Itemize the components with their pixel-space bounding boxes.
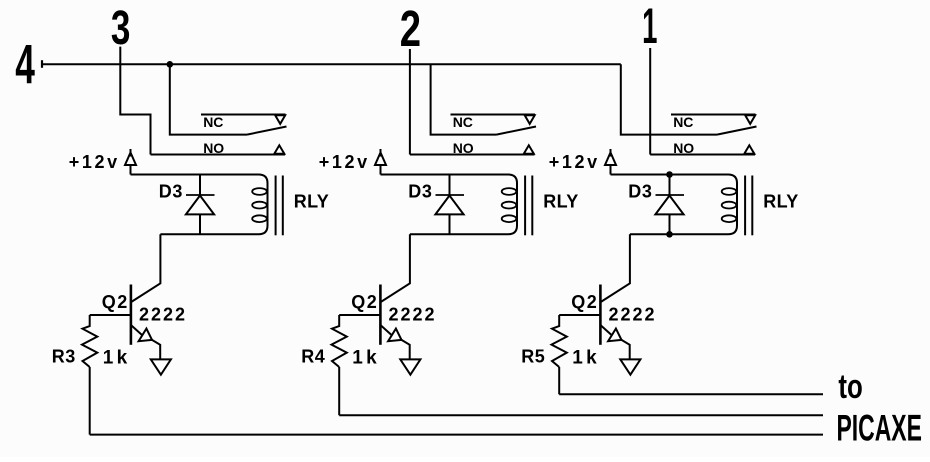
relay K3 NC terminal triangle xyxy=(745,115,755,124)
emitter arrow Q2 block2 xyxy=(388,329,401,342)
+12v power arrow block3 xyxy=(605,153,616,166)
transistor Q2 bar block1 xyxy=(130,285,133,345)
relay core line 1 block3 xyxy=(744,176,746,236)
relay K1 NC terminal triangle xyxy=(275,115,285,124)
svg-text:R4: R4 xyxy=(301,347,325,367)
svg-text:to: to xyxy=(838,369,862,406)
relay K1 NC contact line xyxy=(201,114,286,116)
coil loop 2 block3 xyxy=(722,202,737,209)
relay core line 2 block1 xyxy=(282,176,284,236)
svg-text:NC: NC xyxy=(203,114,223,130)
diode D3 wire block2 xyxy=(449,175,451,235)
svg-text:+12v: +12v xyxy=(319,152,370,172)
coil loop 1 block3 xyxy=(722,188,737,195)
+12v arrow stem block3 xyxy=(610,165,612,175)
relay core line 1 block2 xyxy=(524,176,526,236)
svg-text:1k: 1k xyxy=(103,347,131,368)
wire R3 to PICAXE block1 xyxy=(90,434,823,436)
collector wire Q2 block2 xyxy=(381,234,410,302)
diode D3 triangle block3 xyxy=(655,196,683,215)
wire net 2 to NO block2 xyxy=(409,49,411,155)
bus wire net 4 xyxy=(42,63,621,65)
ground symbol block1 xyxy=(151,359,171,374)
svg-text:2222: 2222 xyxy=(609,305,657,325)
coil loop 3 block1 xyxy=(252,215,267,222)
junction dot diode bottom block3 xyxy=(666,231,673,238)
resistor R3 bottom lead block1 xyxy=(89,367,91,435)
bus left end tick xyxy=(41,60,43,68)
svg-text:PICAXE: PICAXE xyxy=(837,407,922,449)
resistor R5 bottom lead block3 xyxy=(558,367,560,394)
resistor R4 zigzag block2 xyxy=(332,315,347,367)
svg-text:D3: D3 xyxy=(408,182,432,202)
relay K3 NC contact line xyxy=(671,114,756,116)
svg-text:+12v: +12v xyxy=(549,152,600,172)
svg-text:2222: 2222 xyxy=(389,305,437,325)
svg-text:3: 3 xyxy=(111,1,130,55)
svg-text:4: 4 xyxy=(15,33,35,95)
ground symbol block2 xyxy=(400,359,420,374)
relay coil RLY outline block3 xyxy=(611,175,738,184)
svg-text:RLY: RLY xyxy=(763,191,798,211)
svg-text:NO: NO xyxy=(673,140,694,156)
emitter wire Q2 block1 xyxy=(131,325,142,335)
wire bus to common block2 xyxy=(431,64,497,134)
svg-text:RLY: RLY xyxy=(294,191,329,211)
relay core line 2 block2 xyxy=(531,176,533,236)
wire R4 to PICAXE block2 xyxy=(339,414,823,416)
svg-text:NC: NC xyxy=(673,114,693,130)
collector wire Q2 block1 xyxy=(131,234,160,302)
diode D3 wire block1 xyxy=(199,175,201,235)
emitter-to-ground wire block2 xyxy=(402,340,410,359)
svg-text:Q2: Q2 xyxy=(351,292,378,312)
relay K2 NC contact line xyxy=(451,114,536,116)
svg-text:Q2: Q2 xyxy=(102,292,129,312)
svg-text:R3: R3 xyxy=(52,347,76,367)
transistor Q2 bar block2 xyxy=(379,285,382,345)
relay K3 NO contact line xyxy=(650,154,755,156)
coil loop 2 block2 xyxy=(502,202,517,209)
base wire Q2 block1 xyxy=(90,314,131,316)
coil loop 1 block1 xyxy=(252,188,267,195)
svg-text:RLY: RLY xyxy=(543,191,578,211)
ground symbol block3 xyxy=(620,359,640,374)
base wire Q2 block2 xyxy=(339,314,380,316)
diode D3 triangle block1 xyxy=(186,196,214,215)
base wire Q2 block3 xyxy=(559,314,600,316)
wire net 3 to NO block1 xyxy=(120,47,150,155)
+12v arrow apex tick block1 xyxy=(130,149,132,157)
emitter wire Q2 block3 xyxy=(600,325,611,335)
diode D3 cathode bar block2 xyxy=(436,194,465,196)
relay K2 NC terminal triangle xyxy=(525,115,535,124)
svg-text:Q2: Q2 xyxy=(571,292,598,312)
svg-text:1k: 1k xyxy=(352,347,380,368)
diode D3 triangle block2 xyxy=(435,196,463,215)
relay coil RLY outline block1 xyxy=(131,175,268,184)
svg-text:NO: NO xyxy=(203,140,224,156)
+12v arrow stem block1 xyxy=(130,165,132,175)
svg-text:2: 2 xyxy=(400,0,421,57)
svg-text:2222: 2222 xyxy=(139,305,187,325)
transistor Q2 bar block3 xyxy=(599,285,602,345)
relay core line 2 block3 xyxy=(751,176,753,236)
relay K2 common arm xyxy=(497,127,537,135)
coil loop 3 block2 xyxy=(502,215,517,222)
resistor R3 zigzag block1 xyxy=(82,315,97,367)
svg-text:1k: 1k xyxy=(572,347,600,368)
diode D3 cathode bar block3 xyxy=(656,194,685,196)
relay K3 NO terminal triangle xyxy=(744,145,754,153)
relay K1 common arm xyxy=(247,127,287,135)
emitter arrow Q2 block1 xyxy=(139,329,152,342)
collector wire Q2 block3 xyxy=(601,234,630,302)
coil loop 1 block2 xyxy=(502,188,517,195)
+12v power arrow block1 xyxy=(125,153,136,166)
svg-text:+12v: +12v xyxy=(69,152,120,172)
wire bus to common block1 xyxy=(170,64,247,134)
relay K2 NO contact line xyxy=(410,154,535,156)
resistor R4 bottom lead block2 xyxy=(338,367,340,415)
relay coil RLY outline block2 xyxy=(381,175,518,184)
svg-text:D3: D3 xyxy=(628,182,652,202)
svg-text:D3: D3 xyxy=(159,182,183,202)
coil loop 3 block3 xyxy=(722,215,737,222)
+12v arrow apex tick block2 xyxy=(380,149,382,157)
relay K1 NO contact line xyxy=(151,154,286,156)
wire net 1 to NO block3 xyxy=(649,48,651,155)
junction dot diode top block3 xyxy=(666,171,673,178)
wire bus end to common block3 xyxy=(621,64,717,134)
+12v arrow apex tick block3 xyxy=(610,149,612,157)
coil loop 2 block1 xyxy=(252,202,267,209)
relay K1 NO terminal triangle xyxy=(274,145,284,153)
wire R5 to PICAXE block3 xyxy=(559,393,823,395)
svg-text:R5: R5 xyxy=(521,347,545,367)
svg-text:NO: NO xyxy=(453,140,474,156)
relay core line 1 block1 xyxy=(275,176,277,236)
emitter-to-ground wire block1 xyxy=(152,340,160,359)
diode D3 cathode bar block1 xyxy=(186,194,215,196)
resistor R5 zigzag block3 xyxy=(552,315,567,367)
svg-text:NC: NC xyxy=(453,114,473,130)
svg-text:1: 1 xyxy=(642,0,657,54)
emitter wire Q2 block2 xyxy=(380,325,391,335)
junction dot bus block1 xyxy=(167,61,174,68)
+12v arrow stem block2 xyxy=(380,165,382,175)
relay K3 common arm xyxy=(717,127,757,135)
diode D3 wire block3 xyxy=(669,175,671,235)
emitter arrow Q2 block3 xyxy=(608,329,621,342)
relay K2 NO terminal triangle xyxy=(524,145,534,153)
+12v power arrow block2 xyxy=(375,153,386,166)
emitter-to-ground wire block3 xyxy=(622,340,630,359)
